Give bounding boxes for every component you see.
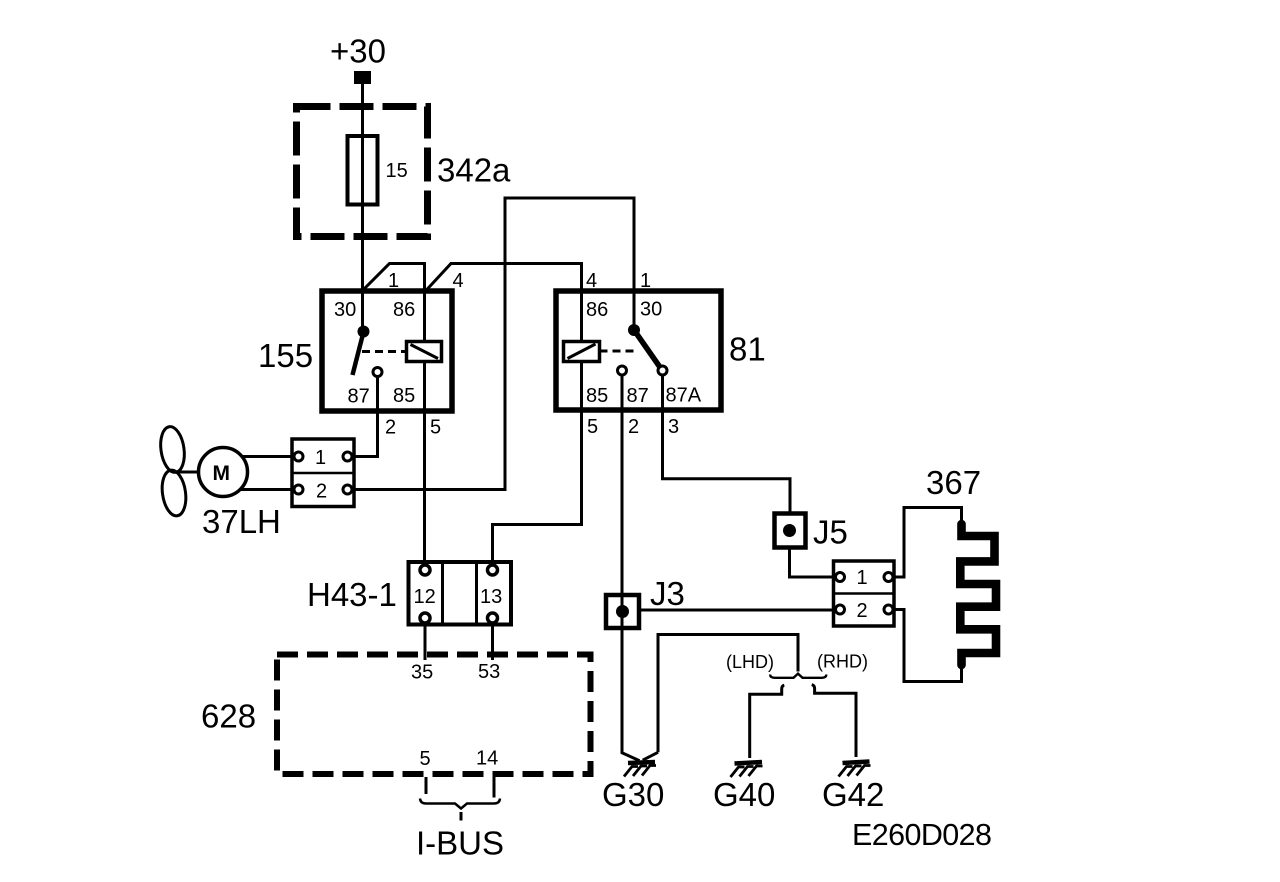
motor connector pin label 1 (315, 447, 326, 469)
LHD RHD selector brace (770, 674, 826, 678)
relay155 pin label 2 (385, 417, 396, 439)
label G42 (822, 776, 884, 813)
label (RHD) (817, 652, 868, 672)
fuse holder box 342a (dashed) (297, 107, 428, 237)
connector H43-1 box with cells (409, 562, 512, 625)
svg-text:E260D028: E260D028 (852, 818, 991, 852)
wire G30 right branch with LHD/RHD selector feed (658, 635, 798, 753)
wire LHD branch to G40 (750, 685, 785, 758)
label 37LH (202, 503, 281, 540)
module 628 pin label 35 (411, 662, 433, 684)
I-BUS brace (420, 799, 500, 809)
label 367 (926, 464, 981, 501)
fan blades of motor 37LH (158, 425, 189, 517)
label J3 (650, 575, 685, 612)
svg-text:13: 13 (480, 586, 502, 608)
svg-text:4: 4 (586, 270, 597, 292)
svg-text:53: 53 (478, 661, 500, 683)
relay81 pin label 5 (587, 416, 598, 438)
module 628 pin label 53 (478, 661, 500, 683)
label 81 (729, 331, 766, 368)
G30 right branch diagonal (643, 752, 658, 760)
relay155 pin label 1 (388, 270, 399, 292)
367 connector terminal circles (836, 573, 894, 615)
svg-text:81: 81 (729, 331, 766, 368)
label E260D028 (852, 818, 991, 852)
relay K155 box (322, 291, 452, 411)
svg-text:J3: J3 (650, 575, 685, 612)
wire motor to connector pin1 (242, 455, 294, 458)
svg-text:30: 30 (640, 299, 662, 321)
svg-text:85: 85 (586, 385, 608, 407)
relay81 pin label 2 (628, 416, 639, 438)
wire relay81 pin3 to J5 (663, 375, 791, 513)
H43-1 pin label 12 (414, 586, 436, 608)
wire relay81 pin2 through J3 to G30 (622, 375, 640, 761)
relay155 terminal label 86 (393, 299, 415, 321)
svg-text:+30: +30 (330, 33, 386, 70)
svg-text:35: 35 (411, 662, 433, 684)
svg-text:12: 12 (414, 586, 436, 608)
wire +30 feed to relay 155 pin 1 (361, 84, 364, 327)
svg-text:85: 85 (393, 385, 415, 407)
relay81 terminal label 87A (666, 385, 702, 407)
relay81 terminal label 30 (640, 299, 662, 321)
H43-1 pin label 13 (480, 586, 502, 608)
svg-text:2: 2 (628, 416, 639, 438)
svg-text:155: 155 (258, 337, 313, 374)
relay155 pin label 5 (430, 417, 441, 439)
svg-text:86: 86 (393, 299, 415, 321)
label J5 (813, 514, 848, 551)
label I-BUS (416, 825, 504, 862)
svg-text:5: 5 (587, 416, 598, 438)
H43-1 terminal circles (420, 565, 498, 623)
motor connector 37LH box (292, 439, 354, 507)
svg-text:2: 2 (385, 417, 396, 439)
wire bridge relay155 pin1 to pin4 (362, 264, 425, 292)
svg-text:367: 367 (926, 464, 981, 501)
svg-text:5: 5 (420, 748, 431, 770)
svg-text:H43-1: H43-1 (307, 576, 397, 613)
svg-text:14: 14 (476, 748, 498, 770)
relay155 pin label 4 (453, 270, 464, 292)
svg-text:1: 1 (857, 567, 868, 589)
ground G42 symbol (839, 762, 871, 777)
motor M circle (199, 448, 248, 497)
relay155 terminal label 87 (348, 386, 370, 408)
wire J5 to 367 connector pin1 (790, 548, 836, 578)
svg-text:M: M (213, 462, 231, 485)
relay81 terminal label 86 (586, 299, 608, 321)
svg-text:30: 30 (334, 299, 356, 321)
relay81 contact 87 terminal circle (618, 366, 627, 375)
svg-text:15: 15 (386, 160, 408, 182)
fan shaft (176, 471, 200, 474)
wire relay81 coil vertical pin4 to pin5 (493, 264, 582, 561)
svg-text:1: 1 (388, 270, 399, 292)
module 628 pin label 5 (420, 748, 431, 770)
svg-text:87: 87 (627, 385, 649, 407)
svg-text:4: 4 (453, 270, 464, 292)
wire relay81 pin1 feed to motor pin2 (352, 198, 634, 490)
relay81 common junction dot (628, 324, 640, 336)
wire H43-1 pin12 to module 628 pin35 (424, 623, 427, 660)
relay155 actuation dashed link (362, 350, 406, 353)
relay81 actuation dashed link (600, 350, 638, 353)
label H43-1 (307, 576, 397, 613)
svg-text:G42: G42 (822, 776, 884, 813)
relay155 terminal label 85 (393, 385, 415, 407)
label G40 (713, 776, 775, 813)
I-BUS tick (460, 812, 463, 821)
svg-text:5: 5 (430, 417, 441, 439)
wire 367 pin2 to heater bottom (893, 610, 962, 682)
svg-text:2: 2 (316, 481, 327, 503)
wire J3 to 367 connector pin2 (639, 609, 836, 612)
svg-text:(LHD): (LHD) (726, 652, 774, 672)
relay81 switch arm closed to 87A (634, 330, 660, 367)
relay81 coil (564, 342, 600, 362)
svg-text:87A: 87A (666, 385, 702, 407)
ground G40 symbol (731, 762, 763, 777)
svg-text:342a: 342a (437, 152, 511, 189)
svg-text:G30: G30 (602, 776, 664, 813)
relay155 terminal label 30 (334, 299, 356, 321)
svg-text:1: 1 (315, 447, 326, 469)
svg-text:1: 1 (640, 270, 651, 292)
367 connector pin label 2 (857, 600, 868, 622)
value label 15 (386, 160, 408, 182)
module 628 dashed box (277, 655, 591, 775)
relay81 terminal label 85 (586, 385, 608, 407)
wire relay155 coil vertical pin4 to pin5 (423, 264, 426, 561)
svg-text:2: 2 (857, 600, 868, 622)
wire RHD branch to G42 (812, 685, 856, 757)
wire 367 pin1 to heater top (893, 508, 962, 578)
svg-text:I-BUS: I-BUS (416, 825, 504, 862)
relay81 pin label 3 (668, 416, 679, 438)
node +30 supply label (330, 33, 386, 70)
367 connector box (834, 561, 895, 626)
ground G30 symbol (624, 762, 656, 777)
wire relay155 pin4 to relay81 pin4 (426, 264, 582, 292)
svg-text:G40: G40 (713, 776, 775, 813)
relay155 switch arm (open) (353, 332, 364, 375)
fuse F15 element (348, 136, 378, 205)
label 155 (258, 337, 313, 374)
svg-text:(RHD): (RHD) (817, 652, 868, 672)
label (LHD) (726, 652, 774, 672)
relay81 terminal label 87 (627, 385, 649, 407)
relay81 contact 87A terminal circle (658, 366, 667, 375)
wire H43-1 pin13 to module 628 pin53 (491, 623, 494, 660)
svg-text:3: 3 (668, 416, 679, 438)
junction J3 box (606, 595, 639, 628)
label G30 (602, 776, 664, 813)
motor connector terminal circles (294, 452, 352, 494)
svg-text:87: 87 (348, 386, 370, 408)
motor connector pin label 2 (316, 481, 327, 503)
relay K81 box (556, 291, 721, 410)
wire relay155 pin2 to motor connector pin1 (352, 377, 378, 457)
relay155 coil (407, 342, 442, 362)
relay81 pin label 1 (640, 270, 651, 292)
module 628 pin label 14 (476, 748, 498, 770)
wire 628 pin5 stub to I-BUS (425, 777, 428, 794)
svg-text:37LH: 37LH (202, 503, 281, 540)
label 628 (201, 698, 256, 735)
+30 terminal square (354, 71, 371, 84)
wire 628 pin14 stub to I-BUS (493, 777, 496, 798)
wire motor to connector pin2 (240, 488, 294, 491)
junction J5 box (775, 514, 806, 548)
heater element 367 (thick zigzag) (960, 524, 996, 665)
relay81 pin label 4 (586, 270, 597, 292)
svg-text:J5: J5 (813, 514, 848, 551)
svg-text:86: 86 (586, 299, 608, 321)
label 342a (437, 152, 511, 189)
relay155 contact 87 terminal circle (373, 368, 382, 377)
relay155 common junction dot (358, 326, 370, 338)
svg-text:628: 628 (201, 698, 256, 735)
367 connector pin label 1 (857, 567, 868, 589)
